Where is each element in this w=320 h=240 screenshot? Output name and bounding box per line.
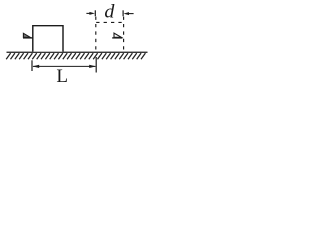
ground hatching: [6, 53, 145, 59]
L dimension: left tick: [31, 60, 33, 71]
d dimension: left bar: [94, 10, 96, 16]
L dimension line: [33, 65, 95, 67]
background: [0, 0, 154, 83]
phantom block: top dashed edge: [96, 21, 123, 23]
block (solid square): [33, 26, 63, 52]
ground surface line: [7, 51, 148, 53]
L dimension: right tick: [95, 57, 97, 73]
d dimension: left tail + arrow pointing right: [86, 12, 90, 14]
svg-text:d: d: [104, 1, 115, 22]
phantom block: left dashed edge: [95, 17, 97, 52]
L dimension right arrowhead: [89, 65, 96, 68]
L dimension left arrowhead: [32, 65, 39, 68]
flag marker inside phantom block: [112, 33, 122, 38]
d dimension: right tail + arrow pointing left: [128, 13, 134, 15]
phantom block: right dashed edge: [123, 17, 125, 52]
d dimension: right bar: [122, 10, 124, 16]
flag marker on block left edge: [23, 33, 33, 38]
svg-text:L: L: [56, 66, 68, 83]
